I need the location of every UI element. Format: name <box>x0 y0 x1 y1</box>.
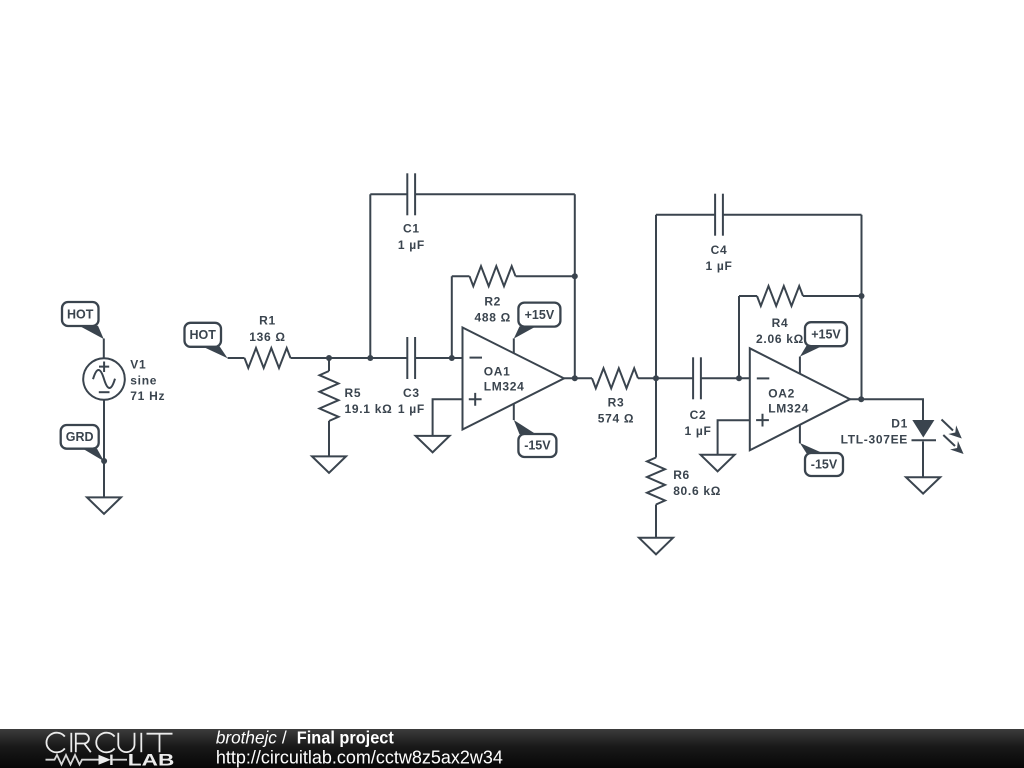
resistor R6 <box>647 458 665 505</box>
wire R1 to C3 <box>291 357 408 359</box>
svg-text:1 µF: 1 µF <box>398 238 425 252</box>
svg-text:V1: V1 <box>130 358 146 372</box>
svg-text:71 Hz: 71 Hz <box>130 389 165 403</box>
svg-text:574 Ω: 574 Ω <box>598 412 634 426</box>
ground (OA2 +) <box>701 455 735 472</box>
wire C4 loop right vertical <box>861 215 863 400</box>
svg-text:1 µF: 1 µF <box>398 402 425 416</box>
label R6 value <box>673 468 721 498</box>
wire R2 to loop <box>516 275 575 277</box>
node R2 right junction <box>572 273 578 279</box>
svg-text:C4: C4 <box>711 243 728 257</box>
svg-text:R6: R6 <box>673 468 690 482</box>
op-amp OA2 <box>750 348 850 450</box>
power flag -15V (OA1) <box>514 420 557 457</box>
svg-text:136 Ω: 136 Ω <box>249 330 285 344</box>
svg-text:HOT: HOT <box>190 328 217 342</box>
svg-text:LM324: LM324 <box>768 402 809 416</box>
svg-text:D1: D1 <box>891 417 908 431</box>
resistor R3 <box>592 368 638 388</box>
label V1 value <box>130 358 165 404</box>
ground (V1) <box>87 497 121 514</box>
wire to R2 <box>452 275 470 277</box>
svg-text:http://circuitlab.com/cctw8z5a: http://circuitlab.com/cctw8z5ax2w34 <box>216 747 503 767</box>
wire C4 branch up <box>655 215 657 379</box>
svg-text:488 Ω: 488 Ω <box>474 311 510 325</box>
ground (OA1 +) <box>416 436 450 453</box>
node GRD junction <box>101 458 107 464</box>
wire OA2 + input to ground <box>718 420 750 454</box>
svg-text:C2: C2 <box>690 408 707 422</box>
op-amp OA1 <box>463 328 565 430</box>
label R4 value <box>756 316 804 346</box>
wire OA1 output <box>564 377 592 379</box>
label R5 value <box>345 386 393 416</box>
svg-text:R3: R3 <box>608 395 625 409</box>
node R5 tap <box>326 355 332 361</box>
power flag +15V (OA2) <box>800 322 847 356</box>
resistor R1 <box>245 348 291 368</box>
svg-text:sine: sine <box>130 373 157 387</box>
wire C4 loop left <box>656 214 715 216</box>
svg-text:+15V: +15V <box>811 328 841 342</box>
svg-text:LAB: LAB <box>128 752 175 768</box>
logo resistor-diode mark <box>46 755 128 765</box>
wire R4 to loop <box>803 295 862 297</box>
power flag +15V (OA1) <box>514 303 561 339</box>
label R2 value <box>474 295 510 325</box>
wire HOT to R1 <box>228 357 245 359</box>
resistor R5 <box>320 371 339 421</box>
svg-text:R4: R4 <box>772 316 789 330</box>
svg-text:OA2: OA2 <box>768 386 795 400</box>
svg-text:+15V: +15V <box>525 308 555 322</box>
wire R2 branch up <box>451 276 453 358</box>
label R3 value <box>598 395 634 425</box>
label C1 value <box>398 222 425 252</box>
svg-text:LM324: LM324 <box>484 380 525 394</box>
capacitor C1 <box>407 173 415 215</box>
label OA2 name <box>768 386 809 415</box>
svg-text:OA1: OA1 <box>484 364 511 378</box>
capacitor C3 <box>407 337 415 379</box>
wire R6 down <box>655 378 657 457</box>
wire C2 to OA2 <box>701 377 750 379</box>
ground (R5) <box>312 456 346 473</box>
LED D1 <box>912 420 964 455</box>
wire R3 to C2 <box>638 377 693 379</box>
node OA2 output <box>858 396 864 402</box>
node OA1 output <box>572 375 578 381</box>
svg-text:R1: R1 <box>259 314 276 328</box>
wire C4 loop right <box>723 214 862 216</box>
svg-text:GRD: GRD <box>66 430 94 444</box>
label C2 value <box>684 408 711 438</box>
label C4 value <box>705 243 732 273</box>
wire R5 tap down <box>328 358 330 371</box>
wire OA1 + input to ground <box>433 399 463 436</box>
wire C1 branch up <box>369 194 371 358</box>
svg-text:C1: C1 <box>403 222 420 236</box>
wire R6 to ground <box>655 505 657 538</box>
node R4 branch tap <box>736 375 742 381</box>
ground (D1) <box>906 477 940 493</box>
node C1 branch tap <box>367 355 373 361</box>
wire R5 to ground <box>328 421 330 456</box>
wire OA2 output <box>850 399 923 420</box>
node R2 branch tap <box>449 355 455 361</box>
ground (R6) <box>639 538 673 555</box>
net flag HOT (V1) <box>62 302 104 339</box>
logo CIRCUIT wordmark <box>46 733 172 753</box>
label C3 value <box>398 386 425 416</box>
svg-text:80.6 kΩ: 80.6 kΩ <box>673 484 721 498</box>
svg-text:2.06 kΩ: 2.06 kΩ <box>756 332 804 346</box>
wire loop right vertical <box>574 194 576 378</box>
wire D1 to ground <box>922 441 924 477</box>
wire top loop left <box>370 193 407 195</box>
svg-text:19.1 kΩ: 19.1 kΩ <box>345 402 393 416</box>
node R6/C4 tap <box>653 375 659 381</box>
svg-text:brothejc/Final project: brothejc/Final project <box>216 728 394 748</box>
footer bar <box>0 729 1024 768</box>
label R1 value <box>249 314 285 344</box>
svg-text:R5: R5 <box>345 386 362 400</box>
svg-text:C3: C3 <box>403 386 420 400</box>
label D1 value <box>841 417 908 447</box>
net flag GRD <box>61 425 104 461</box>
resistor R2 <box>470 266 516 286</box>
svg-text:-15V: -15V <box>524 439 551 453</box>
voltage source V1 <box>83 358 125 400</box>
power flag -15V (OA2) <box>800 443 843 476</box>
net flag HOT (input) <box>185 323 228 358</box>
label OA1 name <box>484 364 525 393</box>
wire V1 to ground <box>103 400 105 498</box>
svg-text:1 µF: 1 µF <box>705 259 732 273</box>
wire C3 to OA1 <box>415 357 462 359</box>
svg-text:HOT: HOT <box>67 307 94 321</box>
wire to R4 <box>739 295 757 297</box>
svg-text:-15V: -15V <box>811 458 838 472</box>
capacitor C4 <box>715 194 723 236</box>
node R4 right junction <box>859 293 865 299</box>
capacitor C2 <box>693 357 701 399</box>
svg-text:LTL-307EE: LTL-307EE <box>841 433 908 447</box>
wire R4 branch up <box>738 296 740 378</box>
svg-text:R2: R2 <box>484 295 501 309</box>
wire top loop right <box>415 193 575 195</box>
resistor R4 <box>757 286 803 306</box>
svg-text:1 µF: 1 µF <box>684 424 711 438</box>
wire HOT to V1 <box>103 339 105 359</box>
